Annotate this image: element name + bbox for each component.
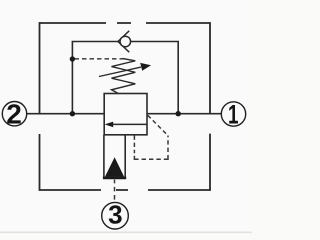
wire left pilot line: [72, 42, 118, 114]
poppet channel right leg: [124, 135, 126, 178]
junction dot (pilot/spring): [70, 56, 75, 61]
wire boundary top edge: [40, 22, 211, 24]
junction dot (pilot/port1): [176, 111, 181, 116]
wire boundary left edge: [39, 22, 41, 191]
main valve box U1: [104, 94, 147, 135]
poppet triangle: [105, 157, 124, 177]
wire port 2 line: [27, 113, 105, 115]
port 3 circle: [102, 202, 129, 229]
flow arrow shaft: [113, 123, 147, 125]
wire dashed pilot to spring: [75, 58, 124, 60]
adjustment arrow head: [140, 63, 151, 71]
wire dashed pilot drain path: [134, 115, 168, 159]
svg-text:2: 2: [6, 99, 22, 130]
valve envelope boundary (dashed box): [40, 22, 211, 191]
wire dashed drain to port 3: [114, 180, 116, 200]
port 2 circle: [2, 102, 26, 126]
check valve seat: [118, 31, 129, 52]
wire boundary right edge: [209, 22, 211, 191]
flow arrow head: [105, 122, 114, 128]
svg-text:3: 3: [108, 200, 122, 230]
check valve poppet circle: [120, 36, 131, 47]
faint page rule at bottom: [0, 231, 252, 233]
junction dot (pilot/port2): [70, 111, 75, 116]
svg-text:1: 1: [228, 99, 239, 129]
wire right pilot line: [131, 42, 179, 114]
port 1 circle: [221, 102, 245, 126]
wire port 1 line: [147, 113, 222, 115]
spring (adjustable): [112, 59, 136, 94]
poppet channel left leg: [103, 135, 105, 178]
poppet seat bar: [103, 177, 126, 180]
wire boundary bottom edge: [40, 189, 211, 191]
adjustment arrow shaft: [99, 67, 141, 76]
